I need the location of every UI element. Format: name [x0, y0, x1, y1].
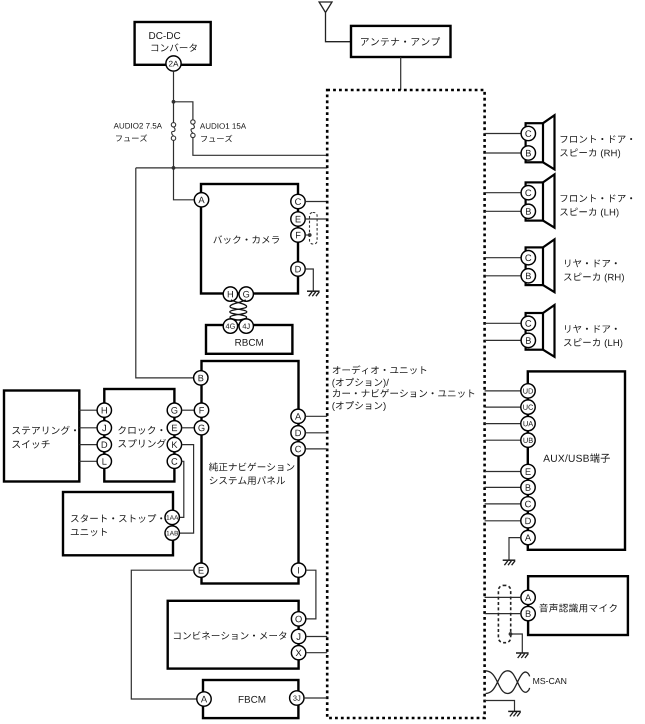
nav panel box	[202, 361, 299, 584]
pin UC	[521, 400, 535, 414]
wire: camera F to shield	[305, 234, 309, 236]
pin C	[521, 251, 535, 265]
front door speaker RH	[543, 115, 555, 169]
wire: AUX C feed	[485, 503, 521, 505]
ground (bottom)	[508, 710, 521, 712]
rear door speaker RH	[543, 239, 555, 292]
label: DC-DC	[149, 32, 180, 39]
wire: left drop to nav panel B	[136, 168, 194, 378]
pin D	[291, 262, 305, 276]
wire: steering to clock spring D	[79, 444, 97, 446]
wire: speaker rear RH B feed	[485, 275, 521, 277]
twisted pair camera to RBCM	[230, 300, 247, 321]
pin B	[194, 371, 208, 385]
wire: feed to camera A	[174, 168, 195, 200]
pin 1AA	[165, 510, 179, 524]
pin A	[197, 692, 211, 706]
wire: AUX UD feed	[485, 390, 521, 392]
label	[565, 259, 617, 267]
wire: nav C to audio unit	[305, 448, 327, 450]
voice mic box	[528, 576, 628, 635]
pin K	[167, 437, 181, 451]
pin X	[291, 646, 305, 660]
pin J	[291, 629, 305, 643]
wire: steering to clock spring L	[79, 460, 97, 462]
combination meter box	[168, 601, 299, 669]
wire: steering to clock spring J	[79, 427, 97, 429]
wire: shield drain to ground	[509, 632, 513, 636]
pin 4J	[239, 319, 253, 333]
pin UD	[521, 384, 535, 398]
pin J	[97, 421, 111, 435]
label: AUDIO1 fuse	[200, 123, 246, 129]
pin B	[521, 146, 535, 160]
pin B	[521, 480, 535, 494]
pin G	[167, 403, 181, 417]
wire: speaker front LH B feed	[485, 210, 521, 212]
wire: G to nav F	[182, 409, 195, 411]
wire: camera C to audio unit	[305, 201, 327, 203]
pin C	[291, 194, 305, 208]
MS-CAN twisted pair	[486, 671, 530, 694]
pin C	[521, 126, 535, 140]
pin F	[194, 403, 208, 417]
pin H	[97, 403, 111, 417]
wire: K to 1AB	[179, 445, 193, 533]
pin 2A	[166, 56, 181, 71]
steering switch box	[4, 391, 79, 482]
pin E	[291, 212, 305, 226]
FBCM box	[203, 680, 298, 718]
pin B	[521, 204, 535, 218]
fuse AUDIO2 7.5A	[171, 123, 175, 127]
antenna amp box	[351, 26, 451, 57]
wire: nav I to combo O	[306, 570, 316, 619]
rear door speaker LH	[543, 305, 555, 357]
pin D	[521, 514, 535, 528]
wire: camera E to audio unit	[305, 218, 327, 220]
wire: speaker rear RH C feed	[485, 257, 521, 259]
label: clock spring	[118, 426, 162, 435]
label: combination meter	[174, 631, 287, 639]
clock spring box	[104, 389, 174, 482]
pin L	[97, 454, 111, 468]
wire: nav A to audio unit	[305, 415, 327, 417]
pin A	[521, 530, 535, 544]
label: back camera	[213, 235, 279, 244]
pin A	[194, 193, 208, 207]
label: MS-CAN	[533, 678, 566, 684]
shield of mic wires	[498, 585, 510, 642]
pin O	[291, 612, 305, 626]
pin C	[521, 186, 535, 200]
pin A	[291, 409, 305, 423]
pin F	[291, 228, 305, 242]
pin B	[521, 606, 535, 620]
DC-DC converter box	[135, 22, 211, 65]
pin H	[223, 287, 237, 301]
wire: speaker front LH C feed	[485, 192, 521, 194]
wire: FBCM 3J to audio unit	[304, 697, 327, 699]
junction	[172, 166, 176, 170]
wire: AUX UA feed	[485, 423, 521, 425]
back camera box	[201, 184, 298, 294]
pin G	[239, 287, 253, 301]
wire: steering to clock spring H	[79, 409, 97, 411]
fuse AUDIO1 15A	[191, 120, 195, 124]
label	[565, 325, 617, 333]
wire: AUX E feed	[485, 471, 521, 473]
label	[561, 135, 633, 143]
label: steering switch	[12, 426, 76, 435]
ground (AUX)	[503, 559, 516, 561]
wire: AUX UB feed	[485, 439, 521, 441]
front door speaker LH	[543, 174, 555, 227]
pin E	[167, 421, 181, 435]
pin 1AB	[165, 526, 179, 540]
wire: mic A	[485, 596, 521, 598]
label: converter	[152, 43, 197, 51]
wire: combo X to audio unit	[306, 652, 327, 654]
wire: AUDIO1 fuse to audio unit	[193, 138, 327, 156]
antenna	[319, 2, 351, 42]
label	[561, 194, 633, 202]
wire: branch to AUDIO1 fuse	[174, 102, 193, 120]
label: genuine navigation panel	[209, 462, 295, 471]
wire: speaker front RH C feed	[485, 133, 521, 135]
label: antenna amp	[361, 37, 440, 46]
pin C	[291, 442, 305, 456]
wire: AUX B feed	[485, 486, 521, 488]
junction	[172, 100, 176, 104]
wire: AUDIO2 fuse down	[173, 140, 175, 168]
AUX/USB terminal box	[528, 371, 625, 549]
pin 4G	[223, 319, 237, 333]
wire: audio unit bottom ground	[485, 701, 515, 712]
wire: camera D to ground	[305, 269, 313, 291]
wire: nav E to FBCM A	[131, 570, 197, 699]
pin A	[521, 590, 535, 604]
wire: AUX UC feed	[485, 406, 521, 408]
label: FBCM	[239, 696, 265, 703]
ground (camera)	[307, 290, 320, 292]
pin D	[97, 437, 111, 451]
wire: speaker front RH B feed	[485, 152, 521, 154]
pin C	[521, 316, 535, 330]
label: voice recognition mic	[539, 604, 617, 613]
pin UB	[521, 433, 535, 447]
pin E	[521, 464, 535, 478]
audio unit dashed outline	[327, 90, 484, 718]
wire: speaker rear LH B feed	[485, 339, 521, 341]
pin E	[194, 563, 208, 577]
wire: E to nav G	[182, 427, 195, 429]
wire: antenna amp to audio unit	[400, 57, 402, 90]
label: AUDIO2 fuse	[114, 123, 162, 129]
wire: nav D to audio unit	[305, 432, 327, 434]
pin B	[521, 269, 535, 283]
wire: mic B	[485, 613, 521, 615]
pin C	[167, 454, 181, 468]
pin D	[291, 426, 305, 440]
ground (mic)	[516, 652, 529, 654]
pin G	[194, 421, 208, 435]
shield of camera E wire	[310, 213, 318, 245]
wire: AUX D feed	[485, 520, 521, 522]
pin 3J	[290, 691, 304, 705]
wire: battery feed from 2A	[173, 71, 175, 122]
wire: row to audio unit	[136, 167, 327, 169]
wire: C to 1AA	[179, 461, 183, 517]
label: start stop unit	[71, 514, 162, 523]
label: AUX/USB	[543, 453, 610, 462]
pin C	[521, 497, 535, 511]
wire: combo J to audio unit	[306, 636, 327, 638]
pin B	[521, 333, 535, 347]
wire: AUX A to ground	[509, 538, 521, 560]
label: audio unit (option)	[333, 365, 427, 374]
label: RBCM	[235, 339, 262, 346]
start-stop unit box	[63, 492, 173, 555]
pin I	[291, 563, 305, 577]
RBCM box	[206, 325, 292, 354]
pin UA	[521, 416, 535, 430]
wire: speaker rear LH C feed	[485, 322, 521, 324]
